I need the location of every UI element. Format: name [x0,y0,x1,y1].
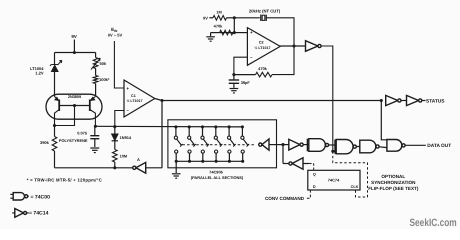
svg-text:½ LT1017: ½ LT1017 [126,99,142,103]
svg-text:+: + [250,30,253,35]
svg-text:9V: 9V [203,15,208,20]
wire C1 output long line to status [162,100,381,102]
wire sync inverter output to node [283,163,289,165]
gate G4 NAND 74C00 [387,140,402,152]
wire G2 output to G3 [356,146,359,148]
svg-text:20kHz (NT CUT): 20kHz (NT CUT) [249,9,281,14]
wire 9V stub down [73,40,75,53]
wire 50k to 100k [95,69,97,76]
transistor pair 2N3809 package outline [46,94,102,119]
wire left branch down to zener [54,53,56,65]
svg-text:1.2V: 1.2V [35,71,44,76]
svg-text:9V: 9V [71,34,76,39]
wire node down to sync inverter [282,145,284,164]
node left collector junction [53,124,56,127]
wire 390k to bottom rail [54,151,56,168]
inverter U6 sync input buffer 74C14 [292,158,303,169]
svg-text:(PARALLEL ALL SECTIONS): (PARALLEL ALL SECTIONS) [191,175,244,180]
wire base to collector tie [55,106,75,126]
svg-text:= 74C14: = 74C14 [29,210,49,216]
resistor 1M [213,15,227,20]
wire status node down to gate G4 [381,101,387,140]
inverter U7 gate chain buffer 74C14 [283,144,289,146]
svg-text:D: D [313,185,316,189]
wire to STATUS label [422,100,426,102]
ground below 74C906 [175,161,177,173]
wire -input feedback [234,57,248,74]
switch array 74C906 box outline [168,120,277,168]
svg-text:–: – [250,55,253,60]
ground for 470k [211,32,220,34]
svg-text:1M: 1M [216,9,221,14]
svg-text:470k: 470k [258,66,267,71]
inverter U5 status buffer 2 [407,95,419,105]
svg-text:C2: C2 [259,41,264,45]
op-amp C2 1/2 LT1017 [247,28,280,66]
svg-text:CONV COMMAND: CONV COMMAND [265,196,305,201]
svg-text:FLIP-FLOP (SEE TEXT): FLIP-FLOP (SEE TEXT) [368,186,419,191]
wire base line Q1-Q2 [59,105,90,107]
switch section S5 of 74C906 [228,125,231,128]
resistor 470k to ground [220,32,235,34]
svg-text:–: – [126,108,129,113]
wire switch bottom rail [176,160,243,162]
svg-text:0.075: 0.075 [77,130,88,135]
node right collector junction [94,125,97,128]
gate G3 NAND 74C00 [360,140,376,153]
node -input feedback junction [232,73,235,76]
resistor 390k [54,126,56,137]
wire status inverters link [401,100,407,102]
op-amp C1 1/2 LT1017 [124,80,155,117]
wire inverter A output feedback rail [55,167,133,169]
resistor 470k feedback [234,74,256,76]
wire node down to +input [233,18,235,33]
wire right branch down to 50k pot [95,53,97,58]
wire E_IN to non-inverting input [114,41,124,88]
switch section S4 of 74C906 [214,125,217,128]
legend NAND symbol 74C00 [10,193,13,195]
node base junction [73,104,76,107]
wire node to crystal [234,17,259,19]
wire clock line right then down [321,46,333,151]
node status branch junction [380,99,383,102]
svg-text:C1: C1 [131,94,136,98]
node gate-drive junction [281,143,284,146]
svg-text:SeekIC.com: SeekIC.com [410,217,457,229]
switch section S6 of 74C906 [241,125,244,128]
node ramp to comparator junction [113,125,116,128]
resistor 50k potentiometer [93,58,98,69]
svg-text:A: A [137,157,140,162]
svg-text:100k*: 100k* [99,77,110,82]
switch section S3 of 74C906 [201,125,204,128]
capacitor C4 39pF [233,75,235,80]
legend inverter symbol 74C14 [12,212,15,214]
wire 470k feedback to output [272,46,294,75]
zener diode D1 LT1004 1.2V [50,60,62,66]
wire gate driver input from node [269,144,283,146]
svg-text:74C906: 74C906 [209,169,223,174]
node oscillator input junction [233,16,236,19]
capacitor C3 0.075 polystyrene [94,126,96,135]
wire ramp node to inverting input [115,111,124,127]
wire ramp rail to switches [95,125,242,128]
node junction 9V rail [73,51,76,54]
node C1 output junction [160,99,163,102]
svg-text:+: + [126,86,129,91]
wire dashed CONV COMMAND to D pin [305,190,310,198]
gate G2 NAND 74C00 [334,140,336,154]
ground below 0.075 cap [90,147,99,149]
svg-text:470k: 470k [214,24,223,29]
svg-text:39pF: 39pF [241,80,251,85]
svg-text:SYNCHRONIZATION: SYNCHRONIZATION [371,180,416,185]
resistor 10M [114,141,116,150]
inverter U4 status buffer 1 [386,95,398,105]
resistor 100k* [93,76,98,84]
wire G3 output to G4 [379,146,387,149]
node clock to G2 junction [331,150,334,153]
transistor Q2 right PNP [89,100,91,112]
wire to gate G1 [303,144,309,146]
svg-text:0V ~ 5V: 0V ~ 5V [108,32,123,37]
svg-text:1N914: 1N914 [120,135,132,140]
svg-text:= 74C00: = 74C00 [31,194,51,200]
svg-text:* = TRW-IRC MTR-5/ + 120ppm/°C: * = TRW-IRC MTR-5/ + 120ppm/°C [27,178,102,183]
node oscillator output junction [292,44,295,47]
svg-text:50k: 50k [100,61,107,66]
wire gate control dashed line [183,144,255,146]
svg-text:74C74: 74C74 [328,178,340,183]
svg-text:POLYSTYRENE: POLYSTYRENE [59,138,88,143]
transistor Q1 left PNP [58,100,60,112]
wire top supply rail [55,52,96,54]
inverter U3 74C906 gate driver [262,139,269,150]
switch section S1 of 74C906 [174,125,177,128]
gate G1 NAND 74C00 [306,139,308,152]
wire crystal to output node [266,18,294,46]
diode D2 1N914 [114,127,116,134]
svg-text:DATA OUT: DATA OUT [427,143,451,149]
crystal Y1 20kHz NT cut [260,15,262,21]
wire dashed clock to CLK pin [333,151,368,197]
inverter U2 oscillator buffer 74C14 [306,41,318,52]
wire 9V to 1M [209,17,213,19]
svg-text:390k: 390k [40,140,50,145]
wire G4 output to DATA OUT [405,144,426,146]
wire zener to transistor emitter [54,72,56,97]
wire sync inverter input dashed to Q [303,163,309,165]
flip-flop U8 74C74 box [308,170,360,190]
wire 100k to transistor emitter [95,84,97,97]
wire clock stub to G2 [333,150,336,152]
wire C2 output [280,45,305,47]
wire into inverter A input [146,167,162,169]
svg-text:STATUS: STATUS [426,99,445,105]
wire 1M to node [227,17,235,19]
svg-text:½ LT1017: ½ LT1017 [254,46,270,50]
svg-text:2N3809: 2N3809 [68,95,81,99]
ground below 39pF [230,88,239,90]
wire +input stub [234,32,247,34]
svg-text:10M: 10M [120,153,128,158]
switch section S2 of 74C906 [188,125,191,128]
node +input junction [233,31,236,34]
wire C1 output down to inverter A [161,101,163,168]
svg-text:CLK: CLK [351,185,359,189]
svg-text:Q: Q [313,172,316,176]
node 10M bottom junction [113,166,116,169]
wire C1 output [155,99,162,101]
wire G1 output to G2 [329,144,336,146]
svg-text:OPTIONAL: OPTIONAL [381,174,405,179]
